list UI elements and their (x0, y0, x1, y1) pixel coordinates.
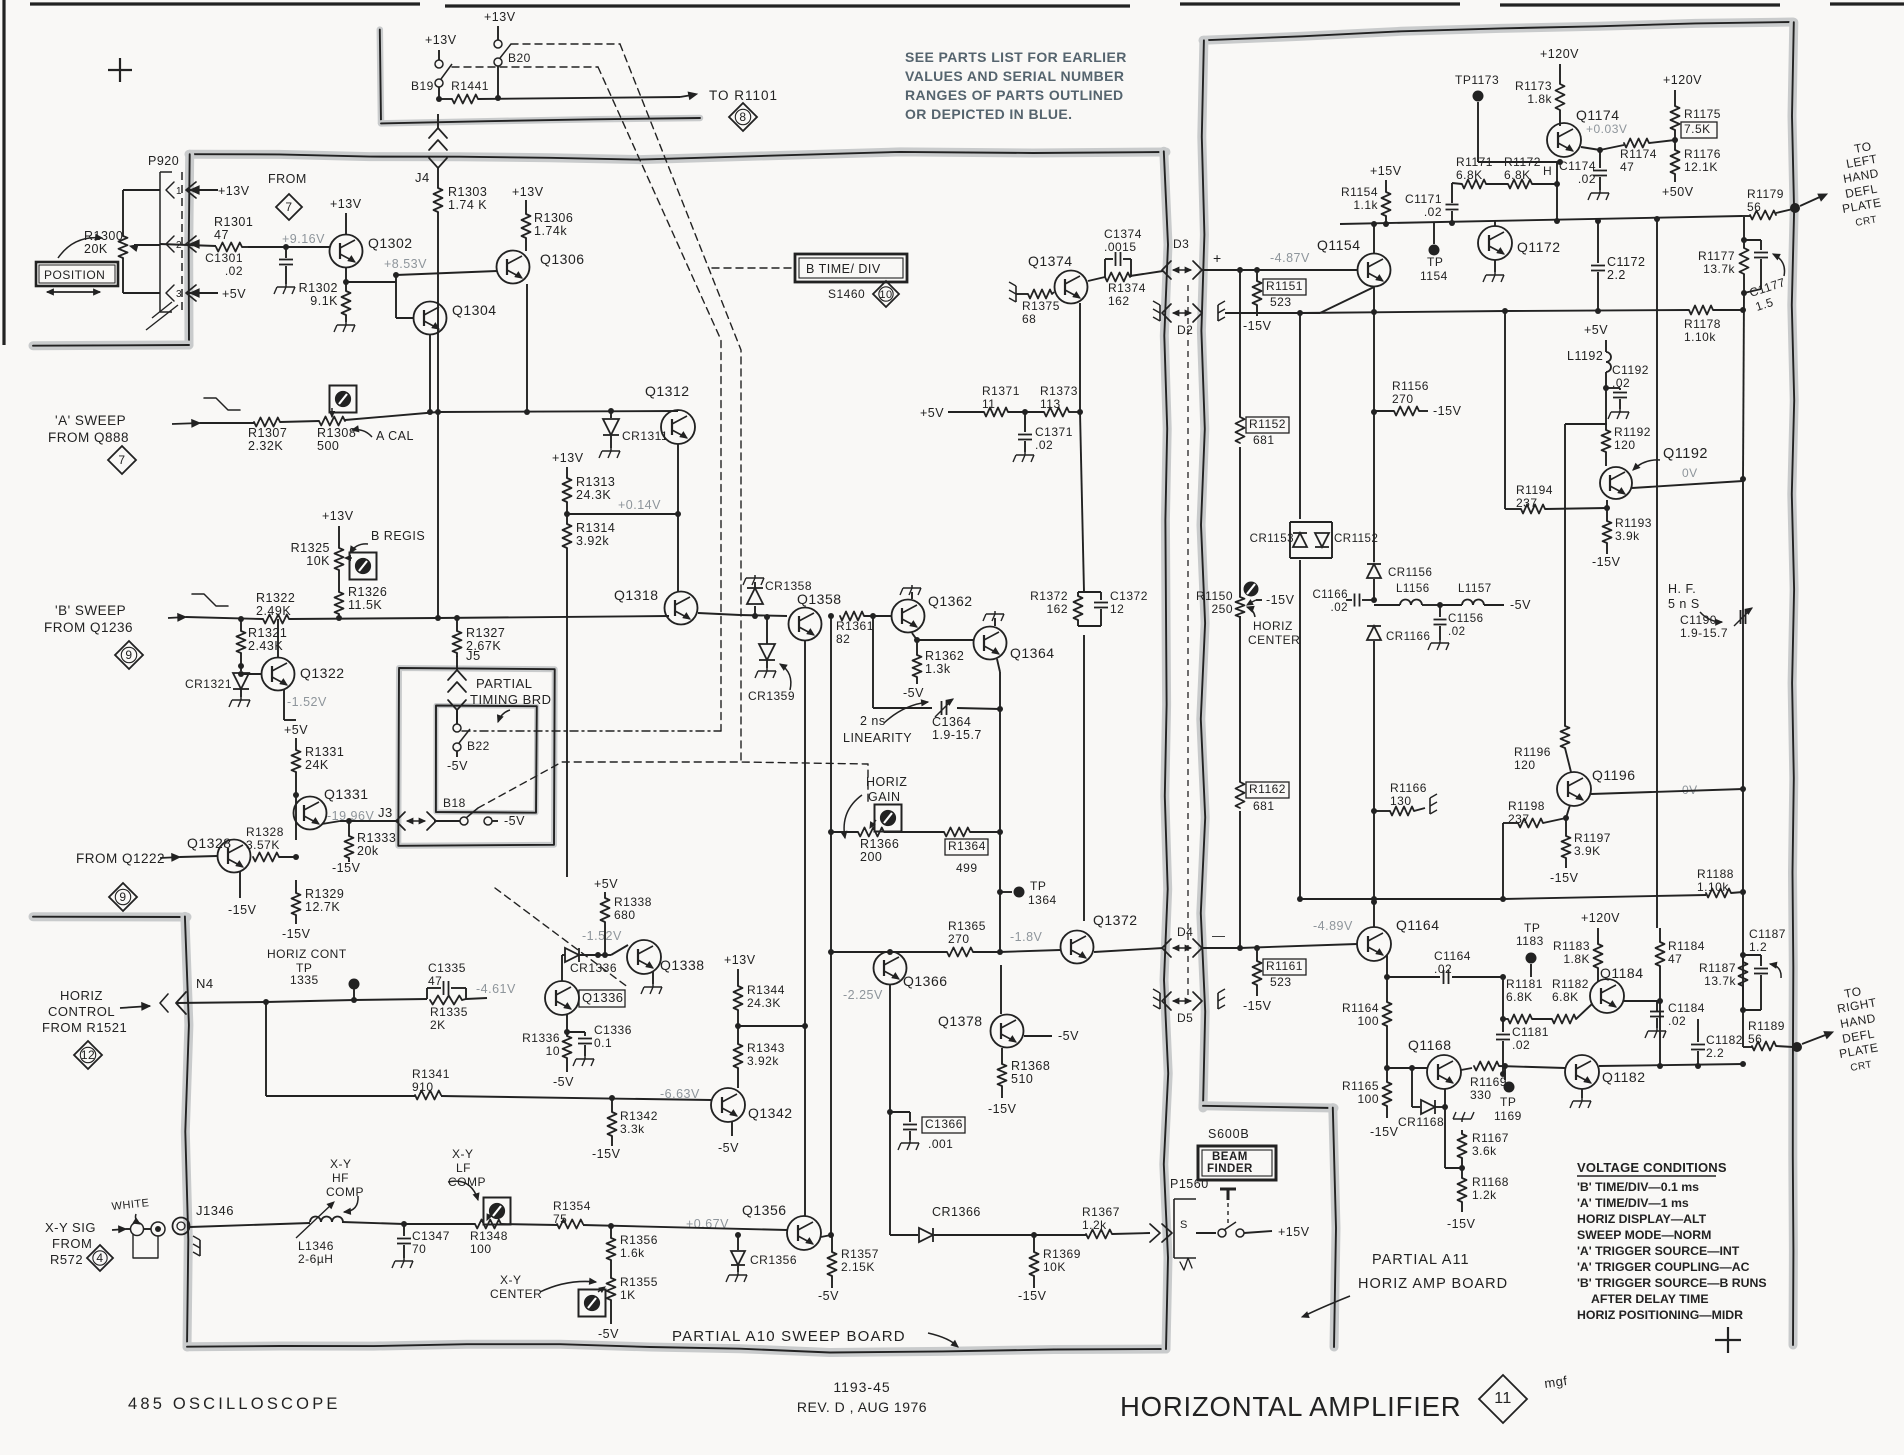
svg-text:-15V: -15V (228, 903, 257, 917)
svg-text:R1372: R1372 (1030, 589, 1068, 603)
registration mark top-left (108, 58, 132, 82)
label A sweep from Q888 (48, 413, 129, 445)
inductor L1157 (1440, 583, 1531, 612)
svg-text:N4: N4 (196, 976, 214, 991)
title mgf (1543, 1373, 1568, 1391)
capacitor C1347 (392, 1224, 450, 1268)
svg-text:75: 75 (553, 1212, 567, 1226)
svg-text:CR1166: CR1166 (1386, 631, 1430, 643)
svg-text:+: + (1213, 250, 1222, 266)
label -5V B18 (498, 814, 525, 828)
P920 pin 2 (166, 236, 199, 252)
svg-text:+8.53V: +8.53V (384, 257, 427, 271)
wire Q1174 emitter (1581, 145, 1624, 153)
wire Q1358 emitter rail (804, 641, 806, 1216)
svg-text:523: 523 (1270, 295, 1292, 309)
wire J3 to B18 (434, 820, 460, 822)
svg-text:J5: J5 (466, 648, 481, 663)
resistor R1374 (1105, 273, 1146, 309)
svg-text:TP1173: TP1173 (1455, 73, 1499, 87)
boxed resistor R1161 (1253, 945, 1307, 989)
transistor Q1364 (974, 627, 1055, 662)
arrow horiz control (120, 1003, 150, 1010)
svg-text:6.8K: 6.8K (1552, 990, 1579, 1004)
svg-text:J1346: J1346 (196, 1203, 234, 1218)
svg-text:R1325: R1325 (291, 541, 330, 555)
svg-text:R1308: R1308 (317, 426, 356, 440)
svg-text:+13V: +13V (425, 33, 457, 47)
label -4.61V (476, 982, 516, 996)
label +5V R1331 (284, 723, 308, 737)
wire R1164 to Q1168 node (1384, 1026, 1390, 1071)
svg-text:-15V: -15V (1447, 1217, 1476, 1231)
wire pin2 to R1301 (160, 244, 216, 246)
capacitor C1172 (1591, 221, 1645, 311)
svg-text:10K: 10K (1043, 1260, 1066, 1274)
svg-text:C1372: C1372 (1110, 589, 1148, 603)
label -15V R1197 (1550, 858, 1579, 885)
transistor Q1331 (294, 786, 369, 830)
resistor R1328 (246, 825, 284, 862)
label -15V R1342 (592, 1136, 621, 1161)
rail right side (1740, 293, 1746, 1047)
A10 sweep board outline right edge (1164, 151, 1168, 1349)
svg-text:12: 12 (1110, 602, 1124, 616)
svg-text:X-Y: X-Y (330, 1157, 352, 1171)
svg-text:C1166: C1166 (1312, 589, 1348, 601)
A11 horiz amp board outline right edge (1792, 22, 1794, 1345)
P920 pin 1 (166, 182, 218, 198)
position arrows (47, 289, 100, 295)
wire defl lower (1743, 1046, 1752, 1048)
svg-text:Q1374: Q1374 (1028, 253, 1073, 269)
arrow A sweep (172, 420, 200, 427)
potentiometer R1150 (1196, 589, 1295, 617)
svg-text:L1346: L1346 (298, 1239, 334, 1253)
svg-text:FROM R1521: FROM R1521 (42, 1020, 127, 1035)
svg-text:R1375: R1375 (1022, 299, 1060, 313)
svg-text:1.2k: 1.2k (1472, 1188, 1497, 1202)
label WHITE (111, 1197, 150, 1224)
dashed line from B20 (511, 44, 741, 764)
svg-text:1.3k: 1.3k (925, 662, 951, 676)
label +50V (1662, 185, 1694, 199)
wire gain rail (828, 613, 834, 1233)
svg-text:J3: J3 (378, 805, 393, 820)
wire R1313 junction (564, 502, 681, 517)
A11 horiz amp board outline left upper edge (1201, 40, 1205, 1108)
transistor Q1336 (545, 981, 625, 1015)
svg-text:COMP: COMP (448, 1175, 486, 1189)
label -4.89V (1313, 919, 1353, 933)
dashed diagonal lower (495, 888, 629, 988)
svg-text:70: 70 (412, 1242, 426, 1256)
label X-Y SIG FROM R572 (45, 1220, 96, 1267)
label +5V R1338 (594, 877, 618, 891)
svg-text:7: 7 (118, 453, 125, 467)
transistor Q1164 (1357, 917, 1440, 961)
label +13V Q1302 (330, 197, 362, 211)
label 0V Q1192 (1682, 466, 1698, 480)
wire Q1364 emitter rail (997, 659, 1003, 952)
resistor R1322 (256, 591, 295, 624)
svg-text:R1177: R1177 (1698, 249, 1735, 263)
svg-text:-5V: -5V (903, 686, 924, 700)
svg-text:499: 499 (956, 861, 978, 875)
wire Q1302 emitter to Q1304 base (346, 272, 413, 318)
resistor R1333 (345, 821, 397, 858)
potentiometer R1348 (470, 1211, 508, 1256)
transistor Q1356 (742, 1202, 821, 1250)
resistor R1368 (998, 1048, 1051, 1086)
resistor R1303 (434, 168, 488, 212)
inductor L1192 (1567, 340, 1611, 388)
svg-text:+120V: +120V (1581, 911, 1620, 925)
label +5V pin3 (222, 287, 246, 301)
svg-text:S: S (1180, 1219, 1188, 1231)
svg-text:FROM Q1222: FROM Q1222 (76, 851, 165, 866)
label +120V R1175 (1663, 73, 1702, 87)
svg-text:R1302: R1302 (299, 281, 338, 295)
svg-text:R1152: R1152 (1249, 417, 1286, 431)
rail plus120 long (1656, 219, 1658, 928)
wire horiz control (176, 997, 487, 1005)
A11 horiz amp board outline left lower edge (1333, 1108, 1336, 1347)
svg-text:510: 510 (1011, 1072, 1033, 1086)
svg-text:C1171: C1171 (1405, 192, 1442, 206)
resistor R1168 (1458, 1168, 1509, 1212)
resistor R1164 (1342, 1001, 1391, 1028)
svg-text:Q1338: Q1338 (660, 957, 705, 973)
svg-text:C1164: C1164 (1434, 949, 1471, 963)
svg-text:S600B: S600B (1208, 1127, 1250, 1141)
label B TIME/DIV box (795, 254, 907, 282)
label -5V R1355 (598, 1300, 619, 1341)
svg-text:1364: 1364 (1028, 893, 1057, 907)
svg-text:D5: D5 (1177, 1011, 1193, 1025)
svg-text:R1314: R1314 (576, 521, 615, 535)
diode CR1359 (759, 614, 775, 668)
svg-text:HF: HF (332, 1171, 349, 1185)
diode CR1166 (1367, 620, 1430, 658)
transistor Q1172 (1478, 226, 1561, 260)
resistor R1336 (522, 1031, 571, 1058)
label +0.67V (686, 1217, 729, 1231)
transistor Q1358 (789, 591, 842, 641)
resistor R1177 C1177 combo (1698, 217, 1787, 314)
svg-text:C1172: C1172 (1607, 255, 1645, 269)
wire Q1168 emitter down (1445, 1089, 1465, 1171)
label -6.63V (660, 1087, 700, 1101)
label -5V R1357 (818, 1276, 839, 1303)
potentiometer R1355 (598, 1260, 658, 1302)
label J5 (466, 648, 481, 663)
svg-text:1183: 1183 (1516, 934, 1544, 948)
svg-text:-15V: -15V (1243, 999, 1272, 1013)
resistor R1198 (1500, 799, 1569, 902)
boxed resistor R1162 (1236, 782, 1290, 813)
svg-text:+50V: +50V (1662, 185, 1694, 199)
svg-text:R1365: R1365 (948, 919, 986, 933)
note see parts list (905, 49, 1127, 122)
svg-text:11.5K: 11.5K (348, 598, 382, 612)
svg-text:2.15K: 2.15K (841, 1260, 875, 1274)
svg-text:250: 250 (1211, 602, 1233, 616)
label -15V R1193 (1592, 543, 1621, 569)
svg-text:-15V: -15V (1550, 871, 1579, 885)
testpoint TP1154 (1420, 222, 1448, 283)
label +13V Q1306 (512, 185, 544, 199)
label -5V R1336 (553, 1058, 574, 1089)
svg-text:100: 100 (1357, 1014, 1379, 1028)
svg-text:12.7K: 12.7K (305, 900, 340, 914)
wire Q1374 emitter rail (1077, 303, 1084, 921)
svg-text:13.7k: 13.7k (1703, 262, 1735, 276)
svg-text:FROM: FROM (268, 172, 307, 186)
transistor Q1362 (892, 593, 973, 633)
label X-Y CENTER (490, 1273, 596, 1301)
svg-text:R1189: R1189 (1748, 1019, 1785, 1033)
svg-text:R1192: R1192 (1614, 425, 1651, 439)
svg-text:12: 12 (81, 1048, 95, 1062)
svg-text:-5V: -5V (1058, 1029, 1079, 1043)
svg-text:3.92k: 3.92k (576, 534, 609, 548)
svg-text:82: 82 (836, 632, 850, 646)
resistor R1361 (836, 612, 874, 647)
title doc number (797, 1379, 927, 1415)
resistor R1188 (1697, 867, 1743, 898)
wire Q1196 emitter right (1591, 786, 1746, 794)
svg-text:Q1168: Q1168 (1408, 1037, 1452, 1053)
wire 13V to Q1302 (345, 213, 347, 234)
svg-text:330: 330 (1470, 1088, 1492, 1102)
svg-text:1.8k: 1.8k (1527, 92, 1552, 106)
svg-text:C1192: C1192 (1612, 363, 1649, 377)
svg-text:R1374: R1374 (1108, 281, 1146, 295)
svg-text:CR1336: CR1336 (570, 961, 617, 975)
svg-text:1.10k: 1.10k (1697, 880, 1729, 894)
svg-text:3.9K: 3.9K (1574, 844, 1601, 858)
dashed beam finder (1227, 1203, 1229, 1226)
wire Q1318 emitter (698, 613, 787, 619)
capacitor C1364 variable (935, 699, 953, 717)
resistor R1327 (453, 618, 506, 653)
svg-text:.02: .02 (1035, 438, 1053, 452)
svg-text:-5V: -5V (818, 1289, 839, 1303)
transistor Q1302 (330, 235, 413, 268)
connector P1560 (1170, 1177, 1209, 1270)
svg-text:PARTIAL: PARTIAL (476, 676, 532, 691)
svg-text:10: 10 (546, 1044, 560, 1058)
connector P920 (148, 154, 182, 312)
transistor Q1378 (938, 1013, 1024, 1048)
svg-text:HORIZ CONT: HORIZ CONT (267, 947, 347, 961)
resistor R1156 (1374, 379, 1462, 418)
svg-text:Q1304: Q1304 (452, 302, 497, 318)
wire Q1154 emitter (1297, 287, 1374, 316)
svg-text:R1197: R1197 (1574, 831, 1611, 845)
resistor R1194 (1505, 311, 1610, 514)
label -19.96V J3 (327, 805, 393, 823)
wire Q1174 base net (1557, 126, 1560, 184)
svg-text:1335: 1335 (290, 973, 319, 987)
svg-text:TP: TP (1427, 255, 1443, 269)
svg-text:-15V: -15V (592, 1147, 621, 1161)
svg-text:CR1356: CR1356 (750, 1253, 797, 1267)
svg-text:2-6µH: 2-6µH (298, 1252, 333, 1266)
svg-text:.02: .02 (1578, 172, 1596, 186)
svg-text:'B' TIME/DIV—0.1 ms: 'B' TIME/DIV—0.1 ms (1577, 1180, 1699, 1194)
svg-text:10: 10 (879, 289, 892, 301)
svg-text:-2.25V: -2.25V (843, 988, 883, 1002)
wire Q1322 base (238, 671, 261, 677)
diode CR1358 (747, 579, 812, 616)
diamond 9 Q1222 (109, 883, 137, 911)
label partial timing brd (470, 676, 552, 722)
testpoint TP1364 (1000, 879, 1057, 907)
transistor Q1154 (1317, 237, 1391, 287)
svg-text:C1156: C1156 (1448, 613, 1484, 625)
svg-text:H: H (1543, 164, 1552, 178)
diodes CR1153 CR1152 (1250, 519, 1379, 560)
svg-text:.02: .02 (1512, 1038, 1530, 1052)
resistor R1375 (1009, 282, 1060, 326)
svg-text:1.74 K: 1.74 K (448, 198, 487, 212)
wire R1343 to Q1342 (737, 1068, 739, 1088)
svg-text:R1336: R1336 (522, 1031, 560, 1045)
svg-text:R1161: R1161 (1266, 959, 1303, 973)
label -4.87V (1270, 251, 1310, 265)
svg-text:B TIME/ DIV: B TIME/ DIV (806, 262, 881, 276)
svg-text:C1301: C1301 (205, 251, 243, 265)
svg-text:HORIZONTAL AMPLIFIER: HORIZONTAL AMPLIFIER (1120, 1391, 1461, 1422)
svg-text:R1367: R1367 (1082, 1205, 1120, 1219)
svg-text:Q1192: Q1192 (1663, 446, 1708, 462)
diode CR1168 (1398, 1068, 1448, 1129)
capacitor C1301 (205, 247, 293, 284)
transistor Q1168 (1408, 1037, 1461, 1089)
resistor R1338 (601, 895, 652, 958)
adjust symbol R1150 (1244, 582, 1259, 597)
svg-text:Q1318: Q1318 (614, 587, 659, 603)
svg-text:Q1372: Q1372 (1093, 912, 1138, 928)
wire Q1378 collector (1000, 952, 1001, 1014)
svg-text:Q1378: Q1378 (938, 1013, 983, 1029)
diode CR1311 (603, 408, 668, 443)
label +15V R1154 (1370, 164, 1402, 178)
svg-text:SWEEP MODE—NORM: SWEEP MODE—NORM (1577, 1228, 1711, 1242)
rail R1152 R1162 (1239, 270, 1241, 948)
transistor Q1196 (1557, 767, 1636, 818)
transistor Q1342 (711, 1088, 793, 1122)
svg-text:C1190: C1190 (1680, 613, 1717, 627)
svg-text:Q1196: Q1196 (1592, 767, 1636, 783)
svg-text:1.8K: 1.8K (1563, 952, 1590, 966)
resistor R1189 (1748, 1019, 1802, 1052)
label BEAM FINDER box (1198, 1146, 1276, 1180)
connector J3 (396, 812, 436, 830)
svg-text:R1165: R1165 (1342, 1079, 1379, 1093)
label +13V R1344 (724, 953, 756, 967)
resistor R1172 (1486, 155, 1560, 221)
ground Q1182 (1570, 1089, 1591, 1108)
svg-text:—: — (1212, 928, 1226, 943)
svg-text:11: 11 (1494, 1390, 1512, 1407)
svg-text:12.1K: 12.1K (1684, 160, 1718, 174)
svg-text:1.6k: 1.6k (620, 1246, 645, 1260)
svg-text:R1151: R1151 (1266, 279, 1303, 293)
svg-text:R1327: R1327 (466, 626, 505, 640)
svg-text:P920: P920 (148, 154, 179, 168)
svg-text:7.5K: 7.5K (1684, 122, 1711, 136)
svg-text:1.2k: 1.2k (1082, 1218, 1107, 1232)
ground Q1364 top (983, 611, 1004, 626)
ground Q1362 top (900, 585, 921, 599)
label 2ns linearity (843, 700, 982, 745)
svg-text:-4.61V: -4.61V (476, 982, 516, 996)
label +0.14V (618, 498, 661, 512)
svg-text:CR1321: CR1321 (185, 677, 232, 691)
svg-text:L1192: L1192 (1567, 349, 1603, 363)
svg-text:GAIN: GAIN (868, 790, 901, 804)
svg-text:C1336: C1336 (594, 1023, 632, 1037)
capacitor C1190 variable (1680, 598, 1752, 640)
svg-text:R1326: R1326 (348, 585, 387, 599)
svg-text:VOLTAGE CONDITIONS: VOLTAGE CONDITIONS (1577, 1160, 1727, 1175)
svg-text:11: 11 (982, 397, 995, 411)
capacitor C1166 (1312, 589, 1374, 614)
svg-text:R1178: R1178 (1684, 317, 1721, 331)
arrow to left defl plate (1800, 194, 1827, 206)
svg-text:+5V: +5V (222, 287, 246, 301)
svg-text:R1156: R1156 (1392, 379, 1429, 393)
svg-text:S1460: S1460 (828, 287, 865, 301)
resistor R1341 (412, 1067, 450, 1100)
label +15V S600B (1278, 1225, 1310, 1239)
wire Q1362 emitter (912, 633, 973, 643)
capacitor C1171 (1405, 183, 1458, 223)
svg-text:24.3K: 24.3K (576, 488, 611, 502)
resistor R1342 (608, 1098, 658, 1136)
label CR1359 (748, 664, 795, 703)
wire Q1322 collector (277, 619, 279, 657)
svg-text:'B' SWEEP: 'B' SWEEP (55, 603, 126, 618)
svg-text:C1371: C1371 (1035, 425, 1073, 439)
A11 horiz amp board outline left jog (1203, 1106, 1334, 1108)
ground R1302 (334, 315, 355, 332)
label HORIZ CENTER (1247, 606, 1300, 647)
resistor R1178 (1684, 306, 1743, 345)
capacitor C1156 (1428, 605, 1484, 650)
ground C1301 (274, 284, 295, 294)
wire Q1366 emitter (887, 985, 893, 1235)
label -1.52V Q1322 (287, 695, 327, 709)
wire R1328 to Q1331 base (279, 856, 296, 858)
wire Q1312 collector (677, 410, 679, 411)
A10 sweep board outline notch lower (33, 912, 187, 921)
resistor R1373 (1008, 384, 1080, 417)
wire Q1306 emitter (524, 284, 530, 415)
svg-text:Q1364: Q1364 (1010, 645, 1055, 661)
svg-text:C1184: C1184 (1668, 1001, 1705, 1015)
svg-text:R1164: R1164 (1342, 1001, 1379, 1015)
svg-text:130: 130 (1390, 794, 1412, 808)
svg-text:R1183: R1183 (1553, 939, 1590, 953)
diamond 7 A sweep (108, 446, 136, 474)
wire R1361 to Q1362 (864, 613, 891, 619)
page border left (2, 0, 5, 345)
svg-text:2.2: 2.2 (1706, 1046, 1724, 1060)
